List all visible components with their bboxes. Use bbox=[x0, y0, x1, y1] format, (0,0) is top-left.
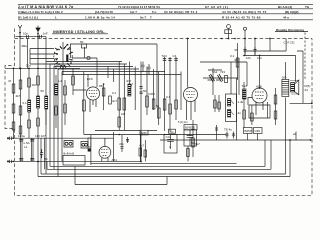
svg-text:a4: a4 bbox=[293, 132, 297, 136]
svg-text:10n: 10n bbox=[26, 64, 31, 68]
svg-text:44 50 (N)40 0n 89(I) 70 75: 44 50 (N)40 0n 89(I) 70 75 bbox=[222, 10, 267, 14]
svg-text:B+B A+B: B+B A+B bbox=[64, 152, 75, 156]
svg-text:4k7: 4k7 bbox=[16, 94, 21, 98]
svg-text:110 127: 110 127 bbox=[35, 134, 46, 138]
svg-text:0.1: 0.1 bbox=[112, 91, 117, 95]
svg-text:TA4: TA4 bbox=[242, 84, 248, 88]
svg-text:1M: 1M bbox=[121, 112, 126, 116]
svg-text:B245: B245 bbox=[141, 131, 148, 135]
svg-text:6Ba: 6Ba bbox=[22, 44, 28, 48]
svg-text:C1 R 232: C1 R 232 bbox=[284, 41, 296, 45]
svg-text:TE 4u: TE 4u bbox=[224, 128, 232, 132]
svg-text:0.1: 0.1 bbox=[166, 95, 171, 99]
svg-text:AZ1: AZ1 bbox=[112, 158, 118, 162]
svg-text:B1 A.E.(4): B1 A.E.(4) bbox=[278, 5, 292, 9]
svg-text:0.1: 0.1 bbox=[230, 54, 235, 58]
svg-text:50: 50 bbox=[143, 89, 147, 93]
svg-text:C4: C4 bbox=[173, 54, 177, 58]
svg-text:EF9: EF9 bbox=[87, 77, 93, 81]
svg-text:50: 50 bbox=[41, 89, 45, 93]
svg-text:(R) A(I)(2): (R) A(I)(2) bbox=[285, 10, 299, 14]
svg-text:B245: B245 bbox=[185, 126, 192, 130]
svg-text:6B: 6B bbox=[99, 84, 103, 88]
svg-text:Drejelig Orientering: Drejelig Orientering bbox=[276, 28, 304, 32]
svg-text:1m ?: 1m ? bbox=[130, 10, 137, 14]
svg-text:10n: 10n bbox=[257, 56, 262, 60]
svg-text:10n: 10n bbox=[246, 56, 251, 60]
svg-text:71 12 24 14(4.6 11 17 58 51 54: 71 12 24 14(4.6 11 17 58 51 54 bbox=[118, 5, 160, 9]
svg-text:47n: 47n bbox=[119, 142, 124, 146]
svg-text:10n: 10n bbox=[23, 32, 28, 36]
svg-text:R 35 44 A1 42 T5 75-80: R 35 44 A1 42 T5 75-80 bbox=[222, 16, 261, 20]
svg-text:C4x: C4x bbox=[166, 135, 171, 139]
svg-text:A1B: A1B bbox=[256, 85, 262, 89]
svg-text:TG: TG bbox=[305, 5, 310, 9]
svg-text:INNEBYGD I STILLING GRL.: INNEBYGD I STILLING GRL. bbox=[53, 30, 106, 34]
svg-text:4n7: 4n7 bbox=[112, 99, 117, 103]
svg-text:C90: C90 bbox=[255, 129, 261, 133]
svg-text:2.u IT M A N/A B/W V.34 K 7a: 2.u IT M A N/A B/W V.34 K 7a bbox=[18, 5, 74, 9]
svg-text:34 32 HO(A) VR T1 4: 34 32 HO(A) VR T1 4 bbox=[164, 10, 198, 14]
svg-text:B1 1nB 0.1 (L): B1 1nB 0.1 (L) bbox=[18, 16, 38, 20]
svg-text:5 n: 5 n bbox=[152, 10, 157, 14]
svg-text:1.68 K.M 2p 4n 14: 1.68 K.M 2p 4n 14 bbox=[85, 16, 115, 20]
svg-text:0.5M: 0.5M bbox=[148, 92, 155, 96]
svg-text:B250: B250 bbox=[245, 129, 252, 133]
svg-text:47: 47 bbox=[8, 79, 12, 83]
svg-text:500: 500 bbox=[282, 76, 287, 80]
svg-text:4u7: 4u7 bbox=[139, 144, 144, 148]
svg-text:TA3: TA3 bbox=[162, 54, 168, 58]
svg-text:50: 50 bbox=[80, 40, 84, 44]
svg-text:44 n: 44 n bbox=[283, 16, 289, 20]
svg-text:0.1: 0.1 bbox=[23, 101, 28, 105]
svg-text:(14.70) 04.70: (14.70) 04.70 bbox=[95, 10, 113, 14]
svg-text:L1: L1 bbox=[24, 145, 28, 149]
svg-text:L: L bbox=[55, 16, 57, 20]
svg-text:4k7: 4k7 bbox=[195, 142, 200, 146]
svg-text:40c: 40c bbox=[169, 130, 174, 134]
svg-text:1.4k: 1.4k bbox=[238, 100, 244, 104]
svg-text:44: 44 bbox=[305, 88, 309, 92]
svg-text:TA2: TA2 bbox=[212, 70, 218, 74]
svg-text:C4Ben r1.4 10n 71 A (A) 4 10n: C4Ben r1.4 10n 71 A (A) 4 10n 2 bbox=[18, 10, 63, 14]
svg-text:1nF: 1nF bbox=[54, 64, 59, 68]
svg-text:1M: 1M bbox=[32, 83, 37, 87]
svg-text:5n 7: 5n 7 bbox=[140, 16, 146, 20]
svg-text:5 (4) 2m: 5 (4) 2m bbox=[178, 120, 188, 124]
svg-text:100a: 100a bbox=[18, 134, 25, 138]
svg-text:4n: 4n bbox=[238, 111, 242, 115]
svg-text:743: 743 bbox=[220, 70, 225, 74]
svg-text:4n7: 4n7 bbox=[126, 79, 131, 83]
svg-text:B1: B1 bbox=[45, 157, 49, 161]
svg-text:5k: 5k bbox=[156, 104, 160, 108]
svg-text:1nF: 1nF bbox=[43, 32, 48, 36]
svg-text:87 A2 A5 (1): 87 A2 A5 (1) bbox=[205, 5, 229, 9]
svg-text:L4: L4 bbox=[59, 79, 63, 83]
